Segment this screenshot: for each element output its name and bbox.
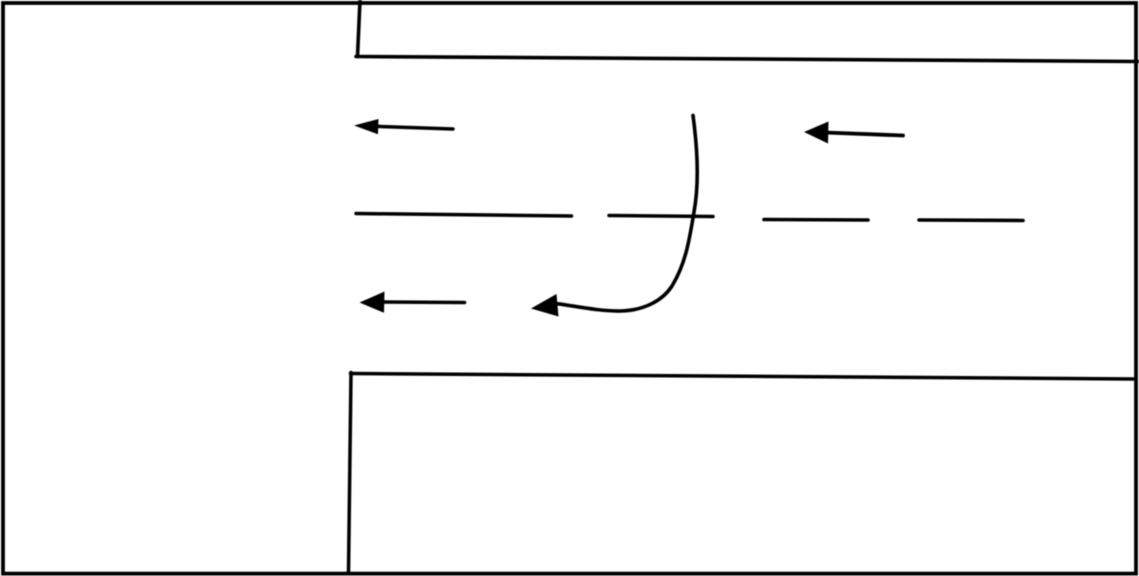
left arrow 2 head [804,122,829,144]
lane marking dash 3 [764,218,868,222]
lane marking dash 1 [356,214,572,217]
left arrow 1 head [354,119,379,134]
lower road edge (horizontal) [351,374,1136,380]
left arrow 3 (lower lane) shaft [381,300,465,304]
left arrow 1 (upper lane, left) shaft [375,126,453,129]
lane marking dash 2 [609,216,713,217]
upper road edge (horizontal) [356,57,1139,62]
lane marking dash 4 [919,218,1023,222]
curved path arrow head [531,294,559,317]
left arrow 3 head [360,292,385,313]
curved turning path [558,116,697,312]
upper left road edge (vertical stub from top) [358,0,361,57]
left arrow 2 (upper lane, right) shaft [825,133,903,136]
lower left road edge (vertical to bottom) [349,373,352,573]
